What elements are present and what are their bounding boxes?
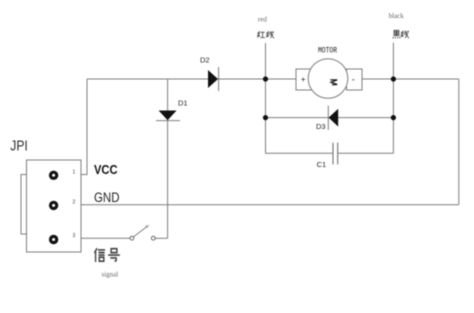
svg-text:-: - — [352, 75, 355, 85]
svg-text:1: 1 — [73, 170, 76, 176]
svg-text:2: 2 — [73, 200, 76, 206]
svg-text:D3: D3 — [316, 122, 326, 131]
svg-text:signal: signal — [102, 271, 119, 279]
svg-text:VCC: VCC — [94, 162, 118, 177]
svg-text:C1: C1 — [317, 160, 327, 169]
svg-text:3: 3 — [73, 233, 76, 239]
svg-text:JPI: JPI — [10, 138, 28, 155]
svg-text:MOTOR: MOTOR — [318, 46, 337, 55]
svg-text:black: black — [389, 12, 405, 20]
svg-text:D2: D2 — [200, 56, 210, 65]
svg-text:red: red — [258, 16, 267, 24]
svg-text:+: + — [301, 75, 306, 84]
svg-text:GND: GND — [94, 190, 120, 205]
svg-text:D1: D1 — [178, 99, 188, 108]
